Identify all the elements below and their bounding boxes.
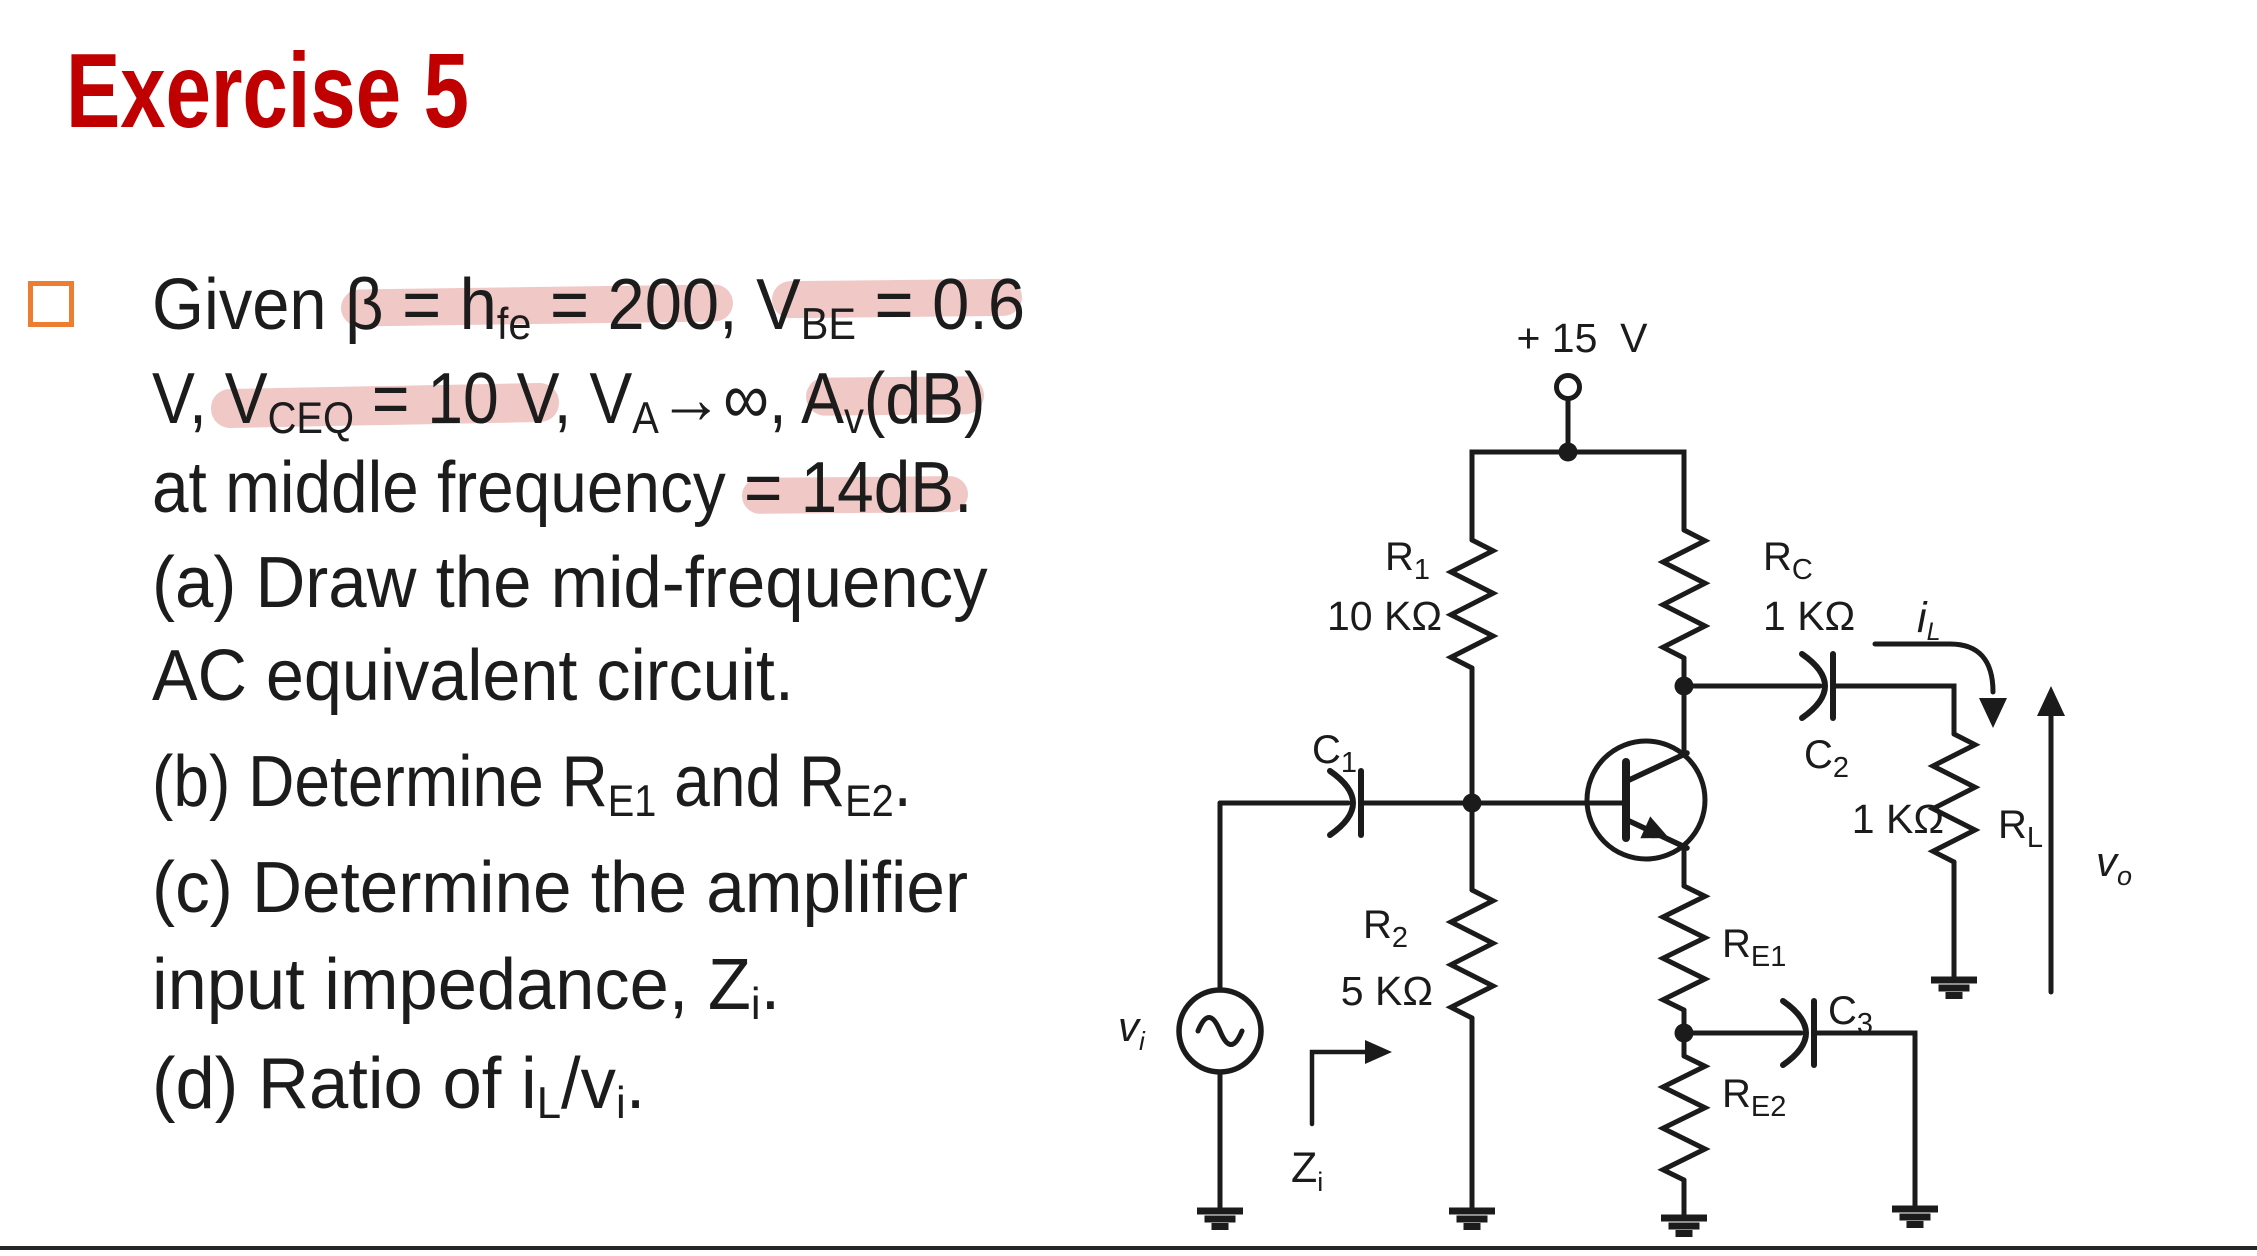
text item c line 1 [152,847,968,929]
ground RE2 [1661,1218,1707,1234]
wire C3 to ground [1817,1033,1915,1206]
wire top rail [1472,452,1684,540]
node supply junction [1559,443,1578,462]
svg-text:Zi: Zi [1291,1144,1323,1197]
output voltage arrow vo [2037,686,2132,992]
svg-text:C1: C1 [1312,728,1357,779]
highlight VCEQ=10V [211,383,560,429]
svg-text:RE2: RE2 [1722,1072,1786,1123]
wire supply to rail [1566,399,1571,452]
resistor RE2 [1663,1056,1786,1180]
ground RL [1931,980,1977,996]
input impedance arrow Zi [1291,1040,1392,1197]
text item c line 2 [152,944,780,1026]
highlight beta=hfe=200 [341,284,733,326]
resistor RL 1 K&#937; [1852,734,2043,862]
text item a line 1 [152,542,988,624]
text item b [152,741,912,823]
text line 2 [152,358,985,440]
resistor R2 5 K&#937; [1341,890,1493,1018]
svg-text:iL: iL [1917,594,1940,646]
wire RL to ground [1952,862,1957,977]
wire C1 up from vi source [1218,803,1223,990]
resistor R1 10 K&#937; [1327,535,1493,668]
wire RE2 to ground [1682,1180,1687,1215]
svg-text:vo: vo [2096,838,2132,891]
svg-text:RL: RL [1998,803,2043,854]
wire R1 to base node [1470,668,1475,803]
text item d [152,1043,645,1125]
source vi (AC) [1118,990,1261,1072]
svg-text:RC: RC [1763,535,1813,586]
svg-text:RE1: RE1 [1722,922,1786,973]
wire base node to R2 [1470,803,1475,890]
bottom rule [0,1246,2257,1250]
ground R2 [1449,1211,1495,1227]
svg-text:1 KΩ: 1 KΩ [1852,796,1944,842]
current arrow iL [1875,594,2007,728]
ground vi [1197,1211,1243,1227]
svg-text:R1: R1 [1385,535,1430,586]
capacitor C3 [1783,989,1873,1065]
wire emitter node to C3 [1684,1031,1801,1036]
title [66,31,469,152]
highlight VBE=0.6 [772,279,1022,319]
bullet checkbox [28,281,74,327]
svg-text:10 KΩ: 10 KΩ [1327,593,1442,639]
wire RC to collector node [1682,658,1687,686]
wire C1 to base [1364,801,1624,806]
capacitor C1 [1312,728,1361,835]
svg-text:C2: C2 [1804,733,1849,784]
svg-text:+ 15 V: + 15 V [1516,315,1648,361]
text line 3 [152,447,972,529]
node base junction [1463,794,1482,813]
node emitter junction [1675,1024,1694,1043]
highlight =14dB [742,476,968,514]
text line 1 [152,264,1025,346]
highlight Av(dB) [806,376,984,416]
wire emitter [1682,848,1687,886]
svg-text:5 KΩ: 5 KΩ [1341,968,1433,1014]
svg-text:vi: vi [1118,1003,1146,1056]
wire vi to C1 [1220,801,1348,806]
wire vi to ground [1218,1072,1223,1208]
wire R2 to ground [1470,1018,1475,1208]
node collector [1675,677,1694,696]
+15V supply terminal [1516,315,1648,399]
wire collector [1682,686,1687,752]
wire C2 to RL [1836,686,1954,734]
svg-text:R2: R2 [1363,903,1408,954]
wire RE1 to emitter node [1682,1010,1687,1056]
ground C3 [1892,1209,1938,1225]
text item a line 2 [152,635,794,717]
svg-text:1 KΩ: 1 KΩ [1763,593,1855,639]
capacitor C2 [1802,654,1849,784]
wire collector node to C2 [1684,684,1820,689]
resistor RE1 [1663,886,1786,1010]
resistor RC 1 K&#937; [1663,530,1855,658]
transistor Q1 (NPN BJT) [1587,741,1705,859]
